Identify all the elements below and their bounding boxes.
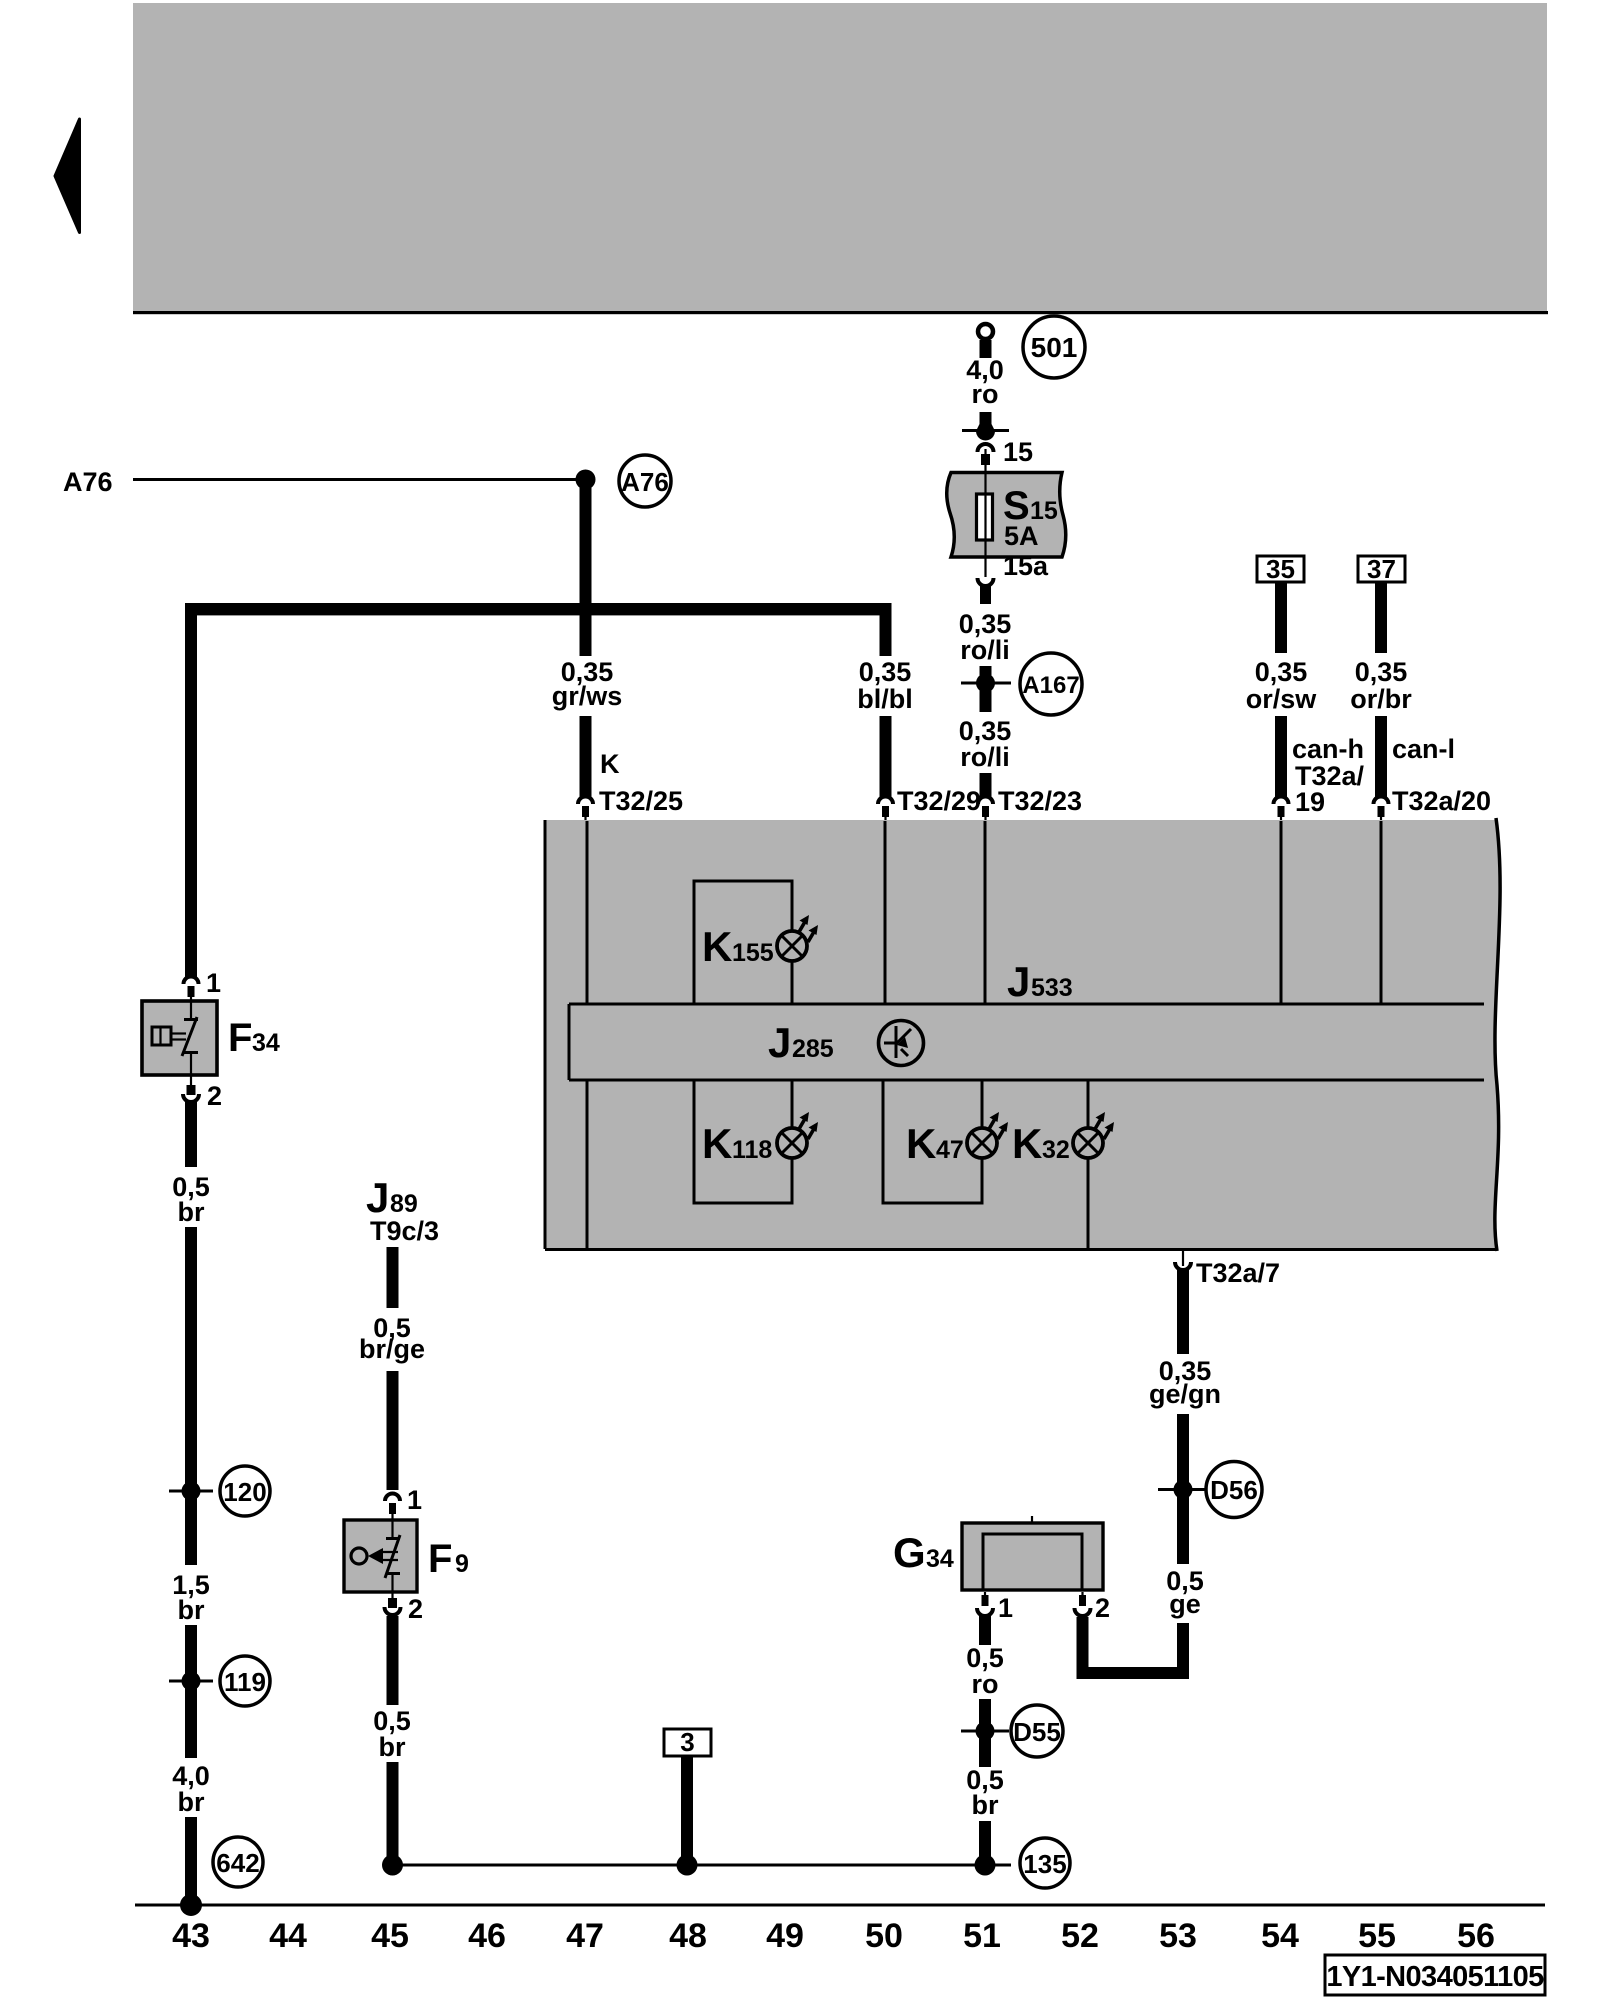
lamp K155 sub-box — [694, 881, 792, 1004]
display unit J285 band — [569, 1003, 1484, 1006]
svg-text:T32/29: T32/29 — [897, 786, 981, 816]
wire 0,35 or/br (can-l) — [1375, 582, 1387, 653]
svg-text:br/ge: br/ge — [359, 1334, 425, 1364]
svg-text:J: J — [768, 1019, 791, 1066]
svg-text:G: G — [893, 1529, 926, 1576]
wire 0,5 br/ge — [387, 1247, 399, 1308]
svg-text:35: 35 — [1266, 554, 1295, 584]
svg-text:37: 37 — [1367, 554, 1396, 584]
node D56 junction — [1174, 1480, 1193, 1499]
drawing number box — [1325, 1955, 1545, 1995]
svg-text:34: 34 — [252, 1029, 280, 1057]
circle label 501 — [1023, 316, 1085, 378]
fuse S15 (box with torn edges) — [947, 473, 1066, 558]
svg-text:119: 119 — [224, 1667, 266, 1697]
svg-text:5A: 5A — [1004, 521, 1039, 551]
node 135 circle label — [1020, 1838, 1070, 1888]
svg-text:ro: ro — [972, 1669, 999, 1699]
lamp K47 sub-box — [883, 1080, 982, 1203]
svg-text:1: 1 — [206, 968, 221, 998]
svg-text:19: 19 — [1295, 787, 1325, 817]
svg-text:br: br — [379, 1732, 406, 1762]
svg-text:D56: D56 — [1210, 1475, 1258, 1505]
banner bottom border line — [133, 311, 1548, 314]
left page-turn arrow — [55, 119, 80, 233]
svg-text:47: 47 — [936, 1136, 964, 1164]
svg-text:K: K — [702, 923, 732, 970]
svg-text:49: 49 — [766, 1917, 804, 1955]
svg-text:46: 46 — [468, 1917, 506, 1955]
svg-text:53: 53 — [1159, 1917, 1197, 1955]
oil pressure switch F9 — [344, 1520, 417, 1592]
pin T32/23 — [978, 797, 993, 804]
wire 0,5 ro — [979, 1615, 991, 1645]
pin T32a/7 under J533 — [1182, 1251, 1184, 1266]
wire 4,0 ro — [980, 340, 992, 358]
lamp K32 symbol — [1073, 1112, 1114, 1158]
svg-text:51: 51 — [963, 1917, 1001, 1955]
svg-text:can-h: can-h — [1292, 734, 1364, 764]
svg-text:T9c/3: T9c/3 — [370, 1216, 439, 1246]
node 120 junction — [182, 1482, 201, 1501]
pin T32/29 — [878, 797, 893, 804]
brake pressure switch F34 — [142, 1001, 217, 1075]
svg-text:533: 533 — [1031, 974, 1073, 1002]
svg-text:2: 2 — [207, 1081, 222, 1111]
control unit J533 (gray body) — [545, 820, 1500, 1249]
wire 0,35 ge/gn — [1177, 1270, 1189, 1354]
svg-text:55: 55 — [1358, 1917, 1396, 1955]
svg-text:135: 135 — [1023, 1849, 1066, 1879]
node 119 junction — [182, 1672, 201, 1691]
svg-text:gr/ws: gr/ws — [552, 681, 623, 711]
node box 35 — [1257, 556, 1304, 582]
svg-text:56: 56 — [1457, 1917, 1495, 1955]
svg-text:K: K — [702, 1120, 732, 1167]
node D55 junction — [976, 1722, 995, 1741]
svg-text:50: 50 — [865, 1917, 903, 1955]
svg-text:br: br — [972, 1790, 999, 1820]
pin 2 of F9 — [391, 1592, 393, 1605]
svg-text:br: br — [178, 1595, 205, 1625]
ground junction dot on rail — [180, 1894, 202, 1916]
wire 0,35 gr/ws (A76 to T32/25) — [580, 479, 592, 656]
pin T32/25 — [578, 797, 593, 804]
svg-text:K: K — [906, 1120, 936, 1167]
svg-text:ge: ge — [1169, 1589, 1201, 1619]
pin 2 of G34 — [1075, 1608, 1091, 1616]
wire 0,5 br — [185, 1100, 197, 1167]
svg-text:A76: A76 — [63, 467, 113, 497]
wire elbow to G34 pin 2 — [1077, 1667, 1190, 1679]
bottom rail line — [135, 1904, 1545, 1907]
wire bus right leg 0,35 bl/bl to T32/29 — [880, 603, 892, 656]
pin 1 of F34 — [184, 977, 199, 984]
svg-text:2: 2 — [408, 1594, 423, 1624]
lamp K118 sub-box — [694, 1080, 792, 1203]
svg-text:3: 3 — [680, 1727, 694, 1757]
pin T32a/20 — [1374, 797, 1389, 804]
node A76 junction dot — [576, 470, 596, 490]
svg-text:ge/gn: ge/gn — [1149, 1379, 1221, 1409]
node box 3 — [664, 1729, 711, 1756]
svg-text:or/br: or/br — [1350, 684, 1412, 714]
pin T32a/19 — [1274, 797, 1289, 804]
svg-text:T32/25: T32/25 — [599, 786, 683, 816]
svg-text:9: 9 — [455, 1550, 469, 1578]
ground bus wire — [392, 1864, 1011, 1867]
wire from box 3 to ground bus — [681, 1756, 693, 1865]
wire 0,5 br — [387, 1616, 399, 1705]
svg-text:K: K — [600, 749, 620, 779]
top banner (grayed-out previous circuit area) — [133, 3, 1547, 311]
J533 left border — [544, 820, 547, 1249]
connector (bolted terminal) symbol — [980, 412, 992, 426]
svg-text:155: 155 — [732, 939, 774, 967]
svg-text:44: 44 — [269, 1917, 307, 1955]
svg-text:48: 48 — [669, 1917, 707, 1955]
svg-text:ro/li: ro/li — [960, 742, 1010, 772]
svg-text:15: 15 — [1003, 437, 1033, 467]
svg-text:J: J — [366, 1174, 389, 1221]
svg-text:or/sw: or/sw — [1246, 684, 1318, 714]
svg-text:32: 32 — [1042, 1136, 1070, 1164]
J533 right torn edge — [1495, 818, 1500, 1251]
svg-text:0,35: 0,35 — [1355, 657, 1408, 687]
svg-text:F: F — [428, 1537, 452, 1581]
internal wire stubs inside J533 (top row) — [586, 821, 589, 1004]
svg-text:0,35: 0,35 — [1255, 657, 1308, 687]
svg-text:1: 1 — [998, 1593, 1013, 1623]
svg-text:br: br — [178, 1787, 205, 1817]
svg-text:1: 1 — [407, 1485, 422, 1515]
fuel gauge sender G34 — [962, 1523, 1103, 1590]
svg-text:can-l: can-l — [1392, 734, 1455, 764]
internal wire stubs inside J533 (bottom area) — [586, 1080, 589, 1249]
svg-text:45: 45 — [371, 1917, 409, 1955]
svg-text:0,35: 0,35 — [859, 657, 912, 687]
fuse element S15 — [977, 494, 993, 540]
svg-text:34: 34 — [926, 1545, 954, 1573]
node box 37 — [1358, 556, 1405, 582]
svg-text:A167: A167 — [1022, 672, 1079, 699]
svg-text:54: 54 — [1261, 1917, 1299, 1955]
svg-text:ro: ro — [972, 379, 999, 409]
wire 0,35 or/sw (can-h) — [1275, 582, 1287, 653]
pin 15 — [978, 444, 994, 452]
svg-text:118: 118 — [732, 1136, 772, 1164]
wire main bus 0,35 (horizontal) — [185, 603, 892, 615]
svg-text:642: 642 — [216, 1848, 259, 1878]
J533 bottom border — [545, 1248, 1497, 1251]
svg-text:285: 285 — [792, 1035, 834, 1063]
svg-text:47: 47 — [566, 1917, 604, 1955]
svg-text:F: F — [228, 1016, 252, 1060]
svg-text:89: 89 — [390, 1190, 418, 1218]
svg-text:ro/li: ro/li — [960, 635, 1010, 665]
pin 1 of F9 — [385, 1494, 400, 1501]
svg-text:2: 2 — [1095, 1593, 1110, 1623]
svg-text:52: 52 — [1061, 1917, 1099, 1955]
lamp K118 symbol — [777, 1112, 818, 1158]
gauge symbol in J285 — [879, 1021, 924, 1066]
svg-text:T32a/20: T32a/20 — [1392, 786, 1491, 816]
svg-text:501: 501 — [1031, 332, 1078, 363]
terminal 30 ring at top of S15 column — [978, 324, 993, 339]
svg-text:br: br — [178, 1197, 205, 1227]
svg-text:J: J — [1007, 958, 1030, 1005]
node 642 circle label — [213, 1837, 263, 1887]
svg-text:bl/bl: bl/bl — [857, 684, 913, 714]
svg-text:120: 120 — [223, 1477, 266, 1507]
pin 2 of F34 — [190, 1075, 192, 1092]
svg-text:A76: A76 — [621, 467, 669, 497]
svg-text:15a: 15a — [1003, 551, 1049, 581]
svg-text:T32/23: T32/23 — [998, 786, 1082, 816]
svg-text:T32a/7: T32a/7 — [1196, 1258, 1280, 1288]
lamp K47 symbol — [967, 1112, 1008, 1158]
wire bus left leg down to F34 — [185, 603, 197, 977]
lamp K155 symbol — [777, 915, 818, 961]
node A76 circle label — [619, 455, 671, 507]
svg-text:1Y1-N034051105: 1Y1-N034051105 — [1326, 1961, 1544, 1993]
node A167 junction — [976, 674, 995, 693]
svg-text:D55: D55 — [1013, 1717, 1061, 1747]
svg-text:K: K — [1012, 1120, 1042, 1167]
pin 1 of G34 — [977, 1608, 993, 1616]
svg-text:43: 43 — [172, 1917, 210, 1955]
